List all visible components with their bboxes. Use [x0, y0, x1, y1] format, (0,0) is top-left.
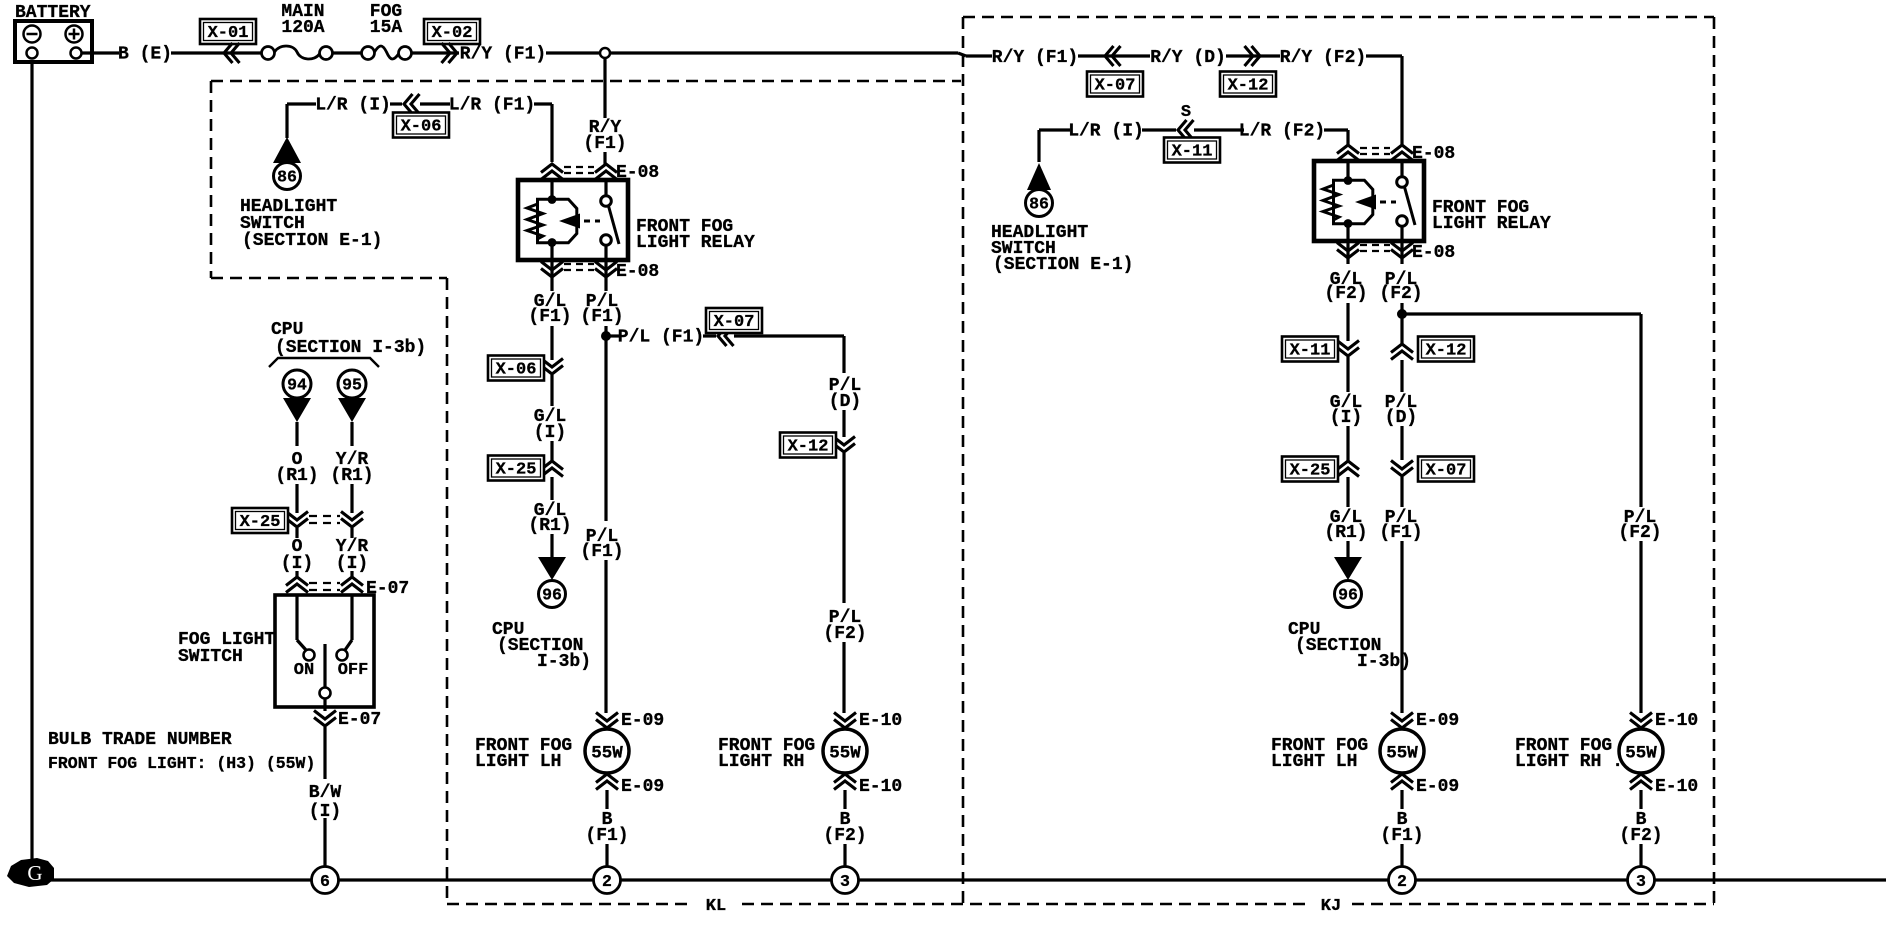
svg-text:86: 86: [277, 168, 297, 187]
svg-text:3: 3: [1636, 872, 1646, 891]
svg-text:X-25: X-25: [1290, 462, 1331, 481]
svg-text:(R1): (R1): [275, 466, 318, 486]
svg-text:E-07: E-07: [338, 710, 381, 730]
svg-text:L/R (I): L/R (I): [1068, 122, 1144, 142]
svg-text:X-07: X-07: [1095, 77, 1136, 96]
svg-text:55W: 55W: [591, 744, 623, 764]
svg-text:X-25: X-25: [240, 513, 281, 532]
svg-text:(SECTION E-1): (SECTION E-1): [993, 255, 1133, 275]
svg-text:(I): (I): [534, 423, 566, 443]
svg-text:R/Y (F1): R/Y (F1): [460, 45, 546, 65]
svg-text:55W: 55W: [1386, 744, 1418, 764]
svg-text:P/L (F1): P/L (F1): [618, 328, 704, 348]
svg-text:FRONT FOG LIGHT: (H3) (55W): FRONT FOG LIGHT: (H3) (55W): [48, 754, 315, 773]
svg-text:(F1): (F1): [580, 307, 623, 327]
svg-text:LIGHT RH: LIGHT RH: [718, 752, 804, 772]
svg-text:X-02: X-02: [432, 24, 473, 43]
svg-text:E-08: E-08: [616, 262, 659, 282]
svg-text:X-07: X-07: [714, 313, 755, 332]
svg-text:(F2): (F2): [1324, 284, 1367, 304]
svg-text:96: 96: [1338, 586, 1358, 605]
svg-text:OFF: OFF: [338, 661, 369, 680]
svg-text:I-3b): I-3b): [537, 652, 591, 672]
svg-text:ON: ON: [294, 661, 314, 680]
svg-text:55W: 55W: [1625, 744, 1657, 764]
svg-text:LIGHT LH: LIGHT LH: [1271, 752, 1357, 772]
svg-text:L/R (F1): L/R (F1): [449, 96, 535, 116]
svg-text:E-09: E-09: [1416, 777, 1459, 797]
svg-text:CPU: CPU: [271, 320, 303, 340]
svg-text:E-09: E-09: [621, 711, 664, 731]
svg-text:LIGHT LH: LIGHT LH: [475, 752, 561, 772]
svg-text:(R1): (R1): [528, 516, 571, 536]
svg-text:(SECTION E-1): (SECTION E-1): [242, 231, 382, 251]
svg-text:R/Y (F2): R/Y (F2): [1280, 48, 1366, 68]
svg-text:B/W: B/W: [309, 783, 342, 803]
svg-text:95: 95: [342, 376, 362, 395]
svg-text:LIGHT RELAY: LIGHT RELAY: [636, 233, 755, 253]
svg-text:LIGHT RH .: LIGHT RH .: [1515, 752, 1623, 772]
svg-text:(F1): (F1): [583, 134, 626, 154]
svg-text:R/Y (D): R/Y (D): [1150, 48, 1226, 68]
svg-text:X-06: X-06: [401, 118, 442, 137]
svg-text:3: 3: [840, 872, 850, 891]
svg-text:R/Y (F1): R/Y (F1): [992, 48, 1078, 68]
svg-text:(F1): (F1): [528, 307, 571, 327]
svg-text:L/R (F2): L/R (F2): [1239, 122, 1325, 142]
svg-text:E-10: E-10: [1655, 777, 1698, 797]
svg-text:86: 86: [1029, 195, 1049, 214]
svg-text:E-08: E-08: [1412, 243, 1455, 263]
svg-text:X-12: X-12: [1426, 342, 1467, 361]
svg-text:X-12: X-12: [788, 438, 829, 457]
svg-text:X-11: X-11: [1290, 342, 1331, 361]
svg-text:X-11: X-11: [1172, 143, 1213, 162]
svg-text:X-12: X-12: [1228, 77, 1269, 96]
svg-text:E-10: E-10: [1655, 711, 1698, 731]
svg-text:(F1): (F1): [1380, 826, 1423, 846]
svg-text:(F2): (F2): [1379, 284, 1422, 304]
svg-text:(R1): (R1): [330, 466, 373, 486]
svg-text:(F2): (F2): [1618, 523, 1661, 543]
svg-text:94: 94: [287, 376, 307, 395]
svg-text:E-09: E-09: [621, 777, 664, 797]
svg-text:(SECTION I-3b): (SECTION I-3b): [275, 338, 426, 358]
svg-text:55W: 55W: [829, 744, 861, 764]
svg-text:E-10: E-10: [859, 777, 902, 797]
svg-text:(F2): (F2): [823, 826, 866, 846]
svg-text:L/R (I): L/R (I): [315, 96, 391, 116]
svg-text:15A: 15A: [370, 18, 403, 38]
svg-text:X-25: X-25: [496, 461, 537, 480]
svg-text:LIGHT RELAY: LIGHT RELAY: [1432, 214, 1551, 234]
svg-text:(D): (D): [1385, 408, 1417, 428]
svg-text:2: 2: [602, 872, 612, 891]
svg-text:SWITCH: SWITCH: [178, 647, 243, 667]
svg-text:S: S: [1181, 103, 1191, 122]
svg-text:6: 6: [320, 872, 330, 891]
svg-text:X-06: X-06: [496, 361, 537, 380]
svg-text:(R1): (R1): [1324, 523, 1367, 543]
svg-text:E-10: E-10: [859, 711, 902, 731]
svg-text:(F1): (F1): [1379, 523, 1422, 543]
svg-text:X-01: X-01: [208, 24, 249, 43]
svg-text:E-09: E-09: [1416, 711, 1459, 731]
svg-text:(I): (I): [1330, 408, 1362, 428]
svg-text:120A: 120A: [281, 18, 324, 38]
svg-text:(D): (D): [829, 392, 861, 412]
svg-text:(F1): (F1): [585, 826, 628, 846]
svg-text:KL: KL: [706, 897, 726, 916]
svg-text:96: 96: [542, 586, 562, 605]
svg-text:B (E): B (E): [118, 45, 172, 65]
svg-text:(F2): (F2): [823, 624, 866, 644]
svg-text:(F2): (F2): [1619, 826, 1662, 846]
svg-text:G: G: [27, 861, 42, 885]
svg-text:(F1): (F1): [580, 542, 623, 562]
svg-text:2: 2: [1397, 872, 1407, 891]
svg-text:KJ: KJ: [1321, 897, 1341, 916]
svg-text:BULB TRADE NUMBER: BULB TRADE NUMBER: [48, 730, 232, 750]
svg-text:X-07: X-07: [1426, 462, 1467, 481]
